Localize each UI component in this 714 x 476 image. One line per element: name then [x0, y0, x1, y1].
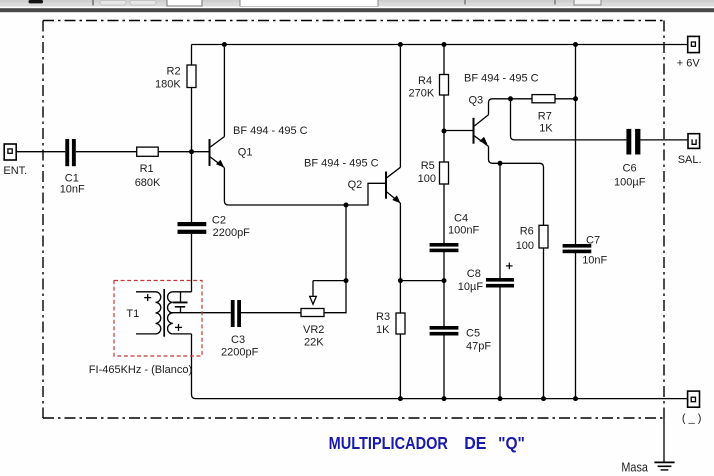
- wire C8 bottom to rail: [499, 288, 501, 399]
- wire VR2 node riser: [345, 205, 347, 281]
- wire Q2 emitter to R3: [399, 203, 401, 313]
- transistor Q2: [386, 167, 401, 203]
- wire C7 bottom to rail: [575, 253, 577, 399]
- T1 secondary top lead: [173, 291, 192, 293]
- svg-text:100: 100: [516, 240, 534, 252]
- capacitor C8: [486, 278, 514, 288]
- node emitter wire: [344, 203, 349, 208]
- svg-text:ENT.: ENT.: [3, 165, 27, 177]
- resistor R1: [137, 147, 159, 156]
- svg-text:C6: C6: [623, 163, 637, 175]
- svg-text:+ 6V: + 6V: [677, 58, 701, 70]
- wire T1 bottom to ground rail: [192, 334, 196, 399]
- svg-text:C7: C7: [586, 235, 600, 247]
- node rail C5: [442, 396, 447, 401]
- transistor Q3: [474, 115, 489, 147]
- svg-text:10nF: 10nF: [582, 255, 607, 267]
- node rail R4: [442, 42, 447, 47]
- svg-text:C4: C4: [454, 212, 468, 224]
- T1 primary plus: [144, 294, 151, 301]
- potentiometer VR2 wiper arrow: [310, 296, 317, 304]
- svg-text:270K: 270K: [409, 87, 435, 99]
- T1 secondary bottom lead: [173, 333, 192, 335]
- capacitor C1: [65, 139, 76, 166]
- wire R7 right to C7 column: [555, 98, 576, 100]
- node rail C7 bottom: [573, 396, 578, 401]
- capacitor C7: [563, 244, 592, 253]
- transformer T1: [136, 289, 192, 337]
- svg-text:C3: C3: [231, 334, 245, 346]
- svg-text:R7: R7: [538, 110, 552, 122]
- wire bottom ground rail: [196, 398, 688, 400]
- resistor R3: [396, 313, 405, 334]
- wire collector node down to C6 line: [511, 99, 627, 140]
- wire input ENT to C1: [16, 151, 65, 153]
- wire C3 to VR2: [241, 312, 301, 314]
- wire C6 to SAL: [640, 139, 688, 141]
- wire Q2 collector to rail: [399, 45, 401, 168]
- wire Q1 collector to rail: [223, 45, 225, 137]
- wire R3 bottom to rail: [399, 334, 401, 399]
- svg-text:SAL.: SAL.: [678, 154, 702, 166]
- node Q3 emitter out: [498, 161, 503, 166]
- wire Q3 collector up: [489, 99, 533, 115]
- T1 secondary winding: [168, 292, 173, 334]
- capacitor C2: [178, 222, 207, 234]
- T1 internal capacitor stubs: [180, 292, 182, 302]
- svg-text:R6: R6: [520, 225, 534, 237]
- wire wiper drop: [312, 281, 314, 297]
- svg-text:10µF: 10µF: [458, 281, 484, 293]
- node rail R6: [541, 396, 546, 401]
- capacitor C4: [430, 243, 459, 252]
- wire R1 to base node: [158, 151, 209, 153]
- capacitor C6: [626, 129, 640, 155]
- wire rail to R4: [443, 45, 445, 75]
- wire C2 to T1 secondary top: [191, 234, 193, 292]
- T1 core: [163, 289, 165, 337]
- T1 internal capacitor plates: [173, 302, 188, 308]
- potentiometer VR2 body: [301, 309, 324, 317]
- title MULTIPLICADOR DE Q: [329, 433, 525, 453]
- capacitor C5: [430, 326, 459, 336]
- T1 primary winding: [156, 292, 161, 334]
- wire Q1 emitter down and right: [224, 167, 386, 205]
- wire C7 column top: [575, 45, 577, 245]
- node Q3 collector out: [508, 96, 513, 101]
- T1 primary top lead: [136, 291, 156, 293]
- svg-text:100: 100: [418, 173, 436, 185]
- node R3 top: [398, 278, 403, 283]
- svg-text:R3: R3: [376, 311, 390, 323]
- wire VR2 right to riser: [324, 281, 346, 313]
- svg-text:R5: R5: [421, 160, 435, 172]
- svg-text:MULTIPLICADOR: MULTIPLICADOR: [329, 433, 449, 453]
- wire wiper horizontal: [313, 280, 346, 282]
- T1 primary bottom lead: [136, 333, 156, 335]
- wire Q3 base: [444, 130, 474, 132]
- resistor R6: [539, 225, 548, 248]
- svg-text:1K: 1K: [376, 324, 390, 336]
- svg-text:DE: DE: [464, 433, 486, 453]
- node divider C4 C5: [442, 278, 447, 283]
- svg-text:680K: 680K: [135, 177, 161, 189]
- wire Q3 emitter down: [489, 146, 544, 225]
- svg-text:BF 494 - 495 C: BF 494 - 495 C: [233, 125, 308, 137]
- node rail R3: [398, 396, 403, 401]
- terminal +6V: [688, 36, 700, 52]
- wire ground stem: [663, 418, 665, 462]
- svg-text:C5: C5: [466, 328, 480, 340]
- toolbar strip: [0, 0, 714, 12]
- capacitor C3: [231, 300, 241, 327]
- svg-text:Q2: Q2: [348, 179, 363, 191]
- svg-text:1K: 1K: [539, 122, 553, 134]
- node VR2 wiper: [344, 278, 349, 283]
- terminal ENT: [4, 144, 16, 160]
- enclosure dash-dot border: [43, 21, 664, 419]
- wire R2 bottom to C2: [191, 88, 193, 223]
- svg-text:FI-465KHz - (Blanco): FI-465KHz - (Blanco): [89, 364, 192, 376]
- wire R3 node to divider node: [400, 280, 444, 282]
- svg-text:100nF: 100nF: [448, 225, 479, 237]
- node base Q1: [189, 149, 194, 154]
- resistor R2: [187, 65, 196, 88]
- T1 secondary plus: [175, 324, 182, 331]
- svg-text:22K: 22K: [304, 336, 324, 348]
- wire C1 to R1: [76, 151, 137, 153]
- svg-text:( _ ): ( _ ): [682, 412, 702, 424]
- wire T1 tap to C3: [170, 312, 231, 314]
- wire R2 top: [191, 45, 193, 66]
- svg-text:Masa: Masa: [621, 459, 648, 474]
- node Q3 base: [442, 129, 447, 134]
- wire R4 to R5 through Q3 base node: [443, 95, 445, 162]
- node rail C8: [498, 396, 503, 401]
- svg-text:VR2: VR2: [303, 324, 324, 336]
- C8 plus: [506, 263, 513, 270]
- wire R5 to C4: [443, 184, 445, 243]
- terminal SAL: [688, 134, 700, 149]
- svg-text:2200pF: 2200pF: [221, 347, 259, 359]
- wire C8 column top: [499, 163, 501, 278]
- svg-text:BF 494 - 495 C: BF 494 - 495 C: [464, 73, 539, 85]
- ground symbol Masa: [654, 462, 674, 470]
- transistor Q1: [210, 137, 225, 168]
- svg-text:180K: 180K: [155, 79, 181, 91]
- svg-text:Q1: Q1: [238, 146, 253, 158]
- wire C5 to rail: [443, 336, 445, 399]
- svg-text:R2: R2: [167, 66, 181, 78]
- svg-text:100µF: 100µF: [614, 177, 646, 189]
- svg-text:47pF: 47pF: [466, 341, 491, 353]
- svg-text:T1: T1: [126, 308, 139, 320]
- svg-text:"Q": "Q": [498, 433, 525, 453]
- terminal (_): [688, 391, 700, 407]
- resistor R4: [440, 75, 449, 96]
- svg-text:10nF: 10nF: [60, 184, 85, 196]
- T1 shield red dashed box: [114, 281, 202, 357]
- wire R6 bottom to rail: [543, 248, 545, 399]
- svg-text:R1: R1: [140, 163, 154, 175]
- resistor R7: [532, 95, 555, 103]
- svg-text:Q3: Q3: [469, 95, 484, 107]
- node rail Q1 collector: [222, 42, 227, 47]
- node rail C7: [573, 42, 578, 47]
- svg-text:2200pF: 2200pF: [213, 227, 251, 239]
- wire top supply rail: [192, 44, 688, 46]
- svg-text:C2: C2: [212, 214, 226, 226]
- node rail Q2 collector: [398, 42, 403, 47]
- svg-text:R4: R4: [418, 75, 432, 87]
- svg-text:BF 494 - 495 C: BF 494 - 495 C: [304, 158, 379, 170]
- svg-text:C8: C8: [467, 268, 481, 280]
- resistor R5: [440, 162, 449, 184]
- wire C4 to C5 through node: [443, 252, 445, 326]
- node R7 right: [573, 96, 578, 101]
